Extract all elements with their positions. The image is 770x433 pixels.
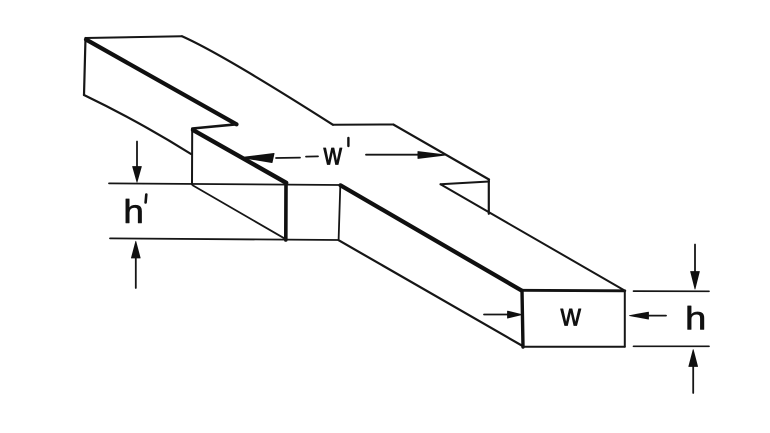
- dimension w: left arrow: [484, 314, 509, 316]
- dimension h: top extension line: [634, 290, 710, 292]
- dimension w: right arrow: [630, 312, 649, 319]
- label h': [126, 199, 142, 223]
- cross bar: right notch horizontal edge: [441, 182, 490, 185]
- upper bar: bottom-front edge: [84, 95, 191, 154]
- cross bar: right end vertical edge: [488, 180, 490, 214]
- dimension h: bottom arrow: [692, 366, 694, 393]
- dimension h: top arrow: [694, 245, 696, 273]
- cross bar: bottom diagonal edge of end face: [193, 186, 286, 240]
- cross bar: right vertical edge of end face: [284, 183, 288, 240]
- dimension w': left dash: [276, 156, 318, 158]
- dimension w': right dash: [366, 154, 418, 156]
- upper bar: notch edge at crossing: [192, 124, 236, 128]
- lower bar: back-top edge: [441, 184, 625, 290]
- dimension h': up arrow: [135, 256, 137, 288]
- upper bar: thick top-front edge: [86, 40, 237, 125]
- lower bar: end face bottom edge: [523, 346, 625, 348]
- cross bar: thick top edge of end face: [193, 130, 286, 183]
- dimension w': left arrowhead: [242, 154, 275, 163]
- cross bar: top face upper edge: [333, 124, 393, 126]
- upper bar: left end edge: [84, 38, 86, 95]
- dimension h: bottom extension line: [634, 345, 710, 347]
- lower bar: end face top edge: [522, 289, 625, 292]
- upper bar: top end edge: [86, 36, 183, 38]
- dimension w': right arrowhead: [418, 152, 446, 159]
- dimension h': upper extension line: [109, 183, 341, 185]
- lower bar: vertical edge at crossing: [339, 186, 341, 241]
- label w': [324, 148, 342, 165]
- label w: [560, 309, 580, 326]
- dimension h': down arrow: [136, 142, 138, 169]
- dimension h': lower extension line: [110, 238, 339, 240]
- cross bar: right end top edge: [393, 125, 489, 180]
- lower bar: end face right edge: [624, 291, 626, 347]
- cross bar: left vertical edge of end face: [191, 129, 193, 185]
- lower bar: bottom-front edge: [339, 240, 524, 346]
- lower bar: thick top-front edge: [341, 185, 522, 290]
- lower bar: end face left edge: [522, 290, 523, 347]
- upper bar: back-top edge: [182, 36, 333, 125]
- label h: [688, 306, 704, 329]
